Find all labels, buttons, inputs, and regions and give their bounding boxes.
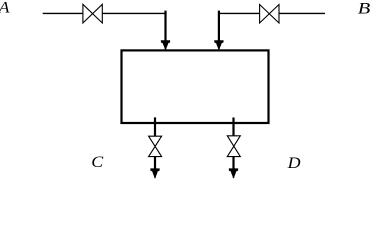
valve C (hourglass) [149,136,162,156]
wire outlet D stub [232,118,234,137]
arrowhead outlet D [229,168,238,178]
valve A (bowtie) [83,4,102,23]
wire drop A [164,11,166,42]
wire outlet C stub [154,117,156,136]
valve B (bowtie) [260,5,279,24]
arrowhead into tank (A) [161,40,170,50]
wire inlet A [43,12,83,14]
wire drop B [218,11,220,42]
svg-text:C: C [91,153,104,171]
valve D (hourglass) [227,136,240,157]
arrowhead into tank (B) [214,40,223,50]
svg-text:D: D [287,154,301,172]
arrowhead outlet C [150,168,159,178]
wire valve A to corner [102,12,166,14]
wire inlet B [279,12,325,14]
wire valve B to corner [218,12,260,14]
svg-text:B: B [358,0,371,17]
tank vessel [122,50,269,123]
wire outlet D shaft [232,157,234,170]
svg-text:A: A [0,0,10,16]
wire outlet C shaft [154,157,156,170]
